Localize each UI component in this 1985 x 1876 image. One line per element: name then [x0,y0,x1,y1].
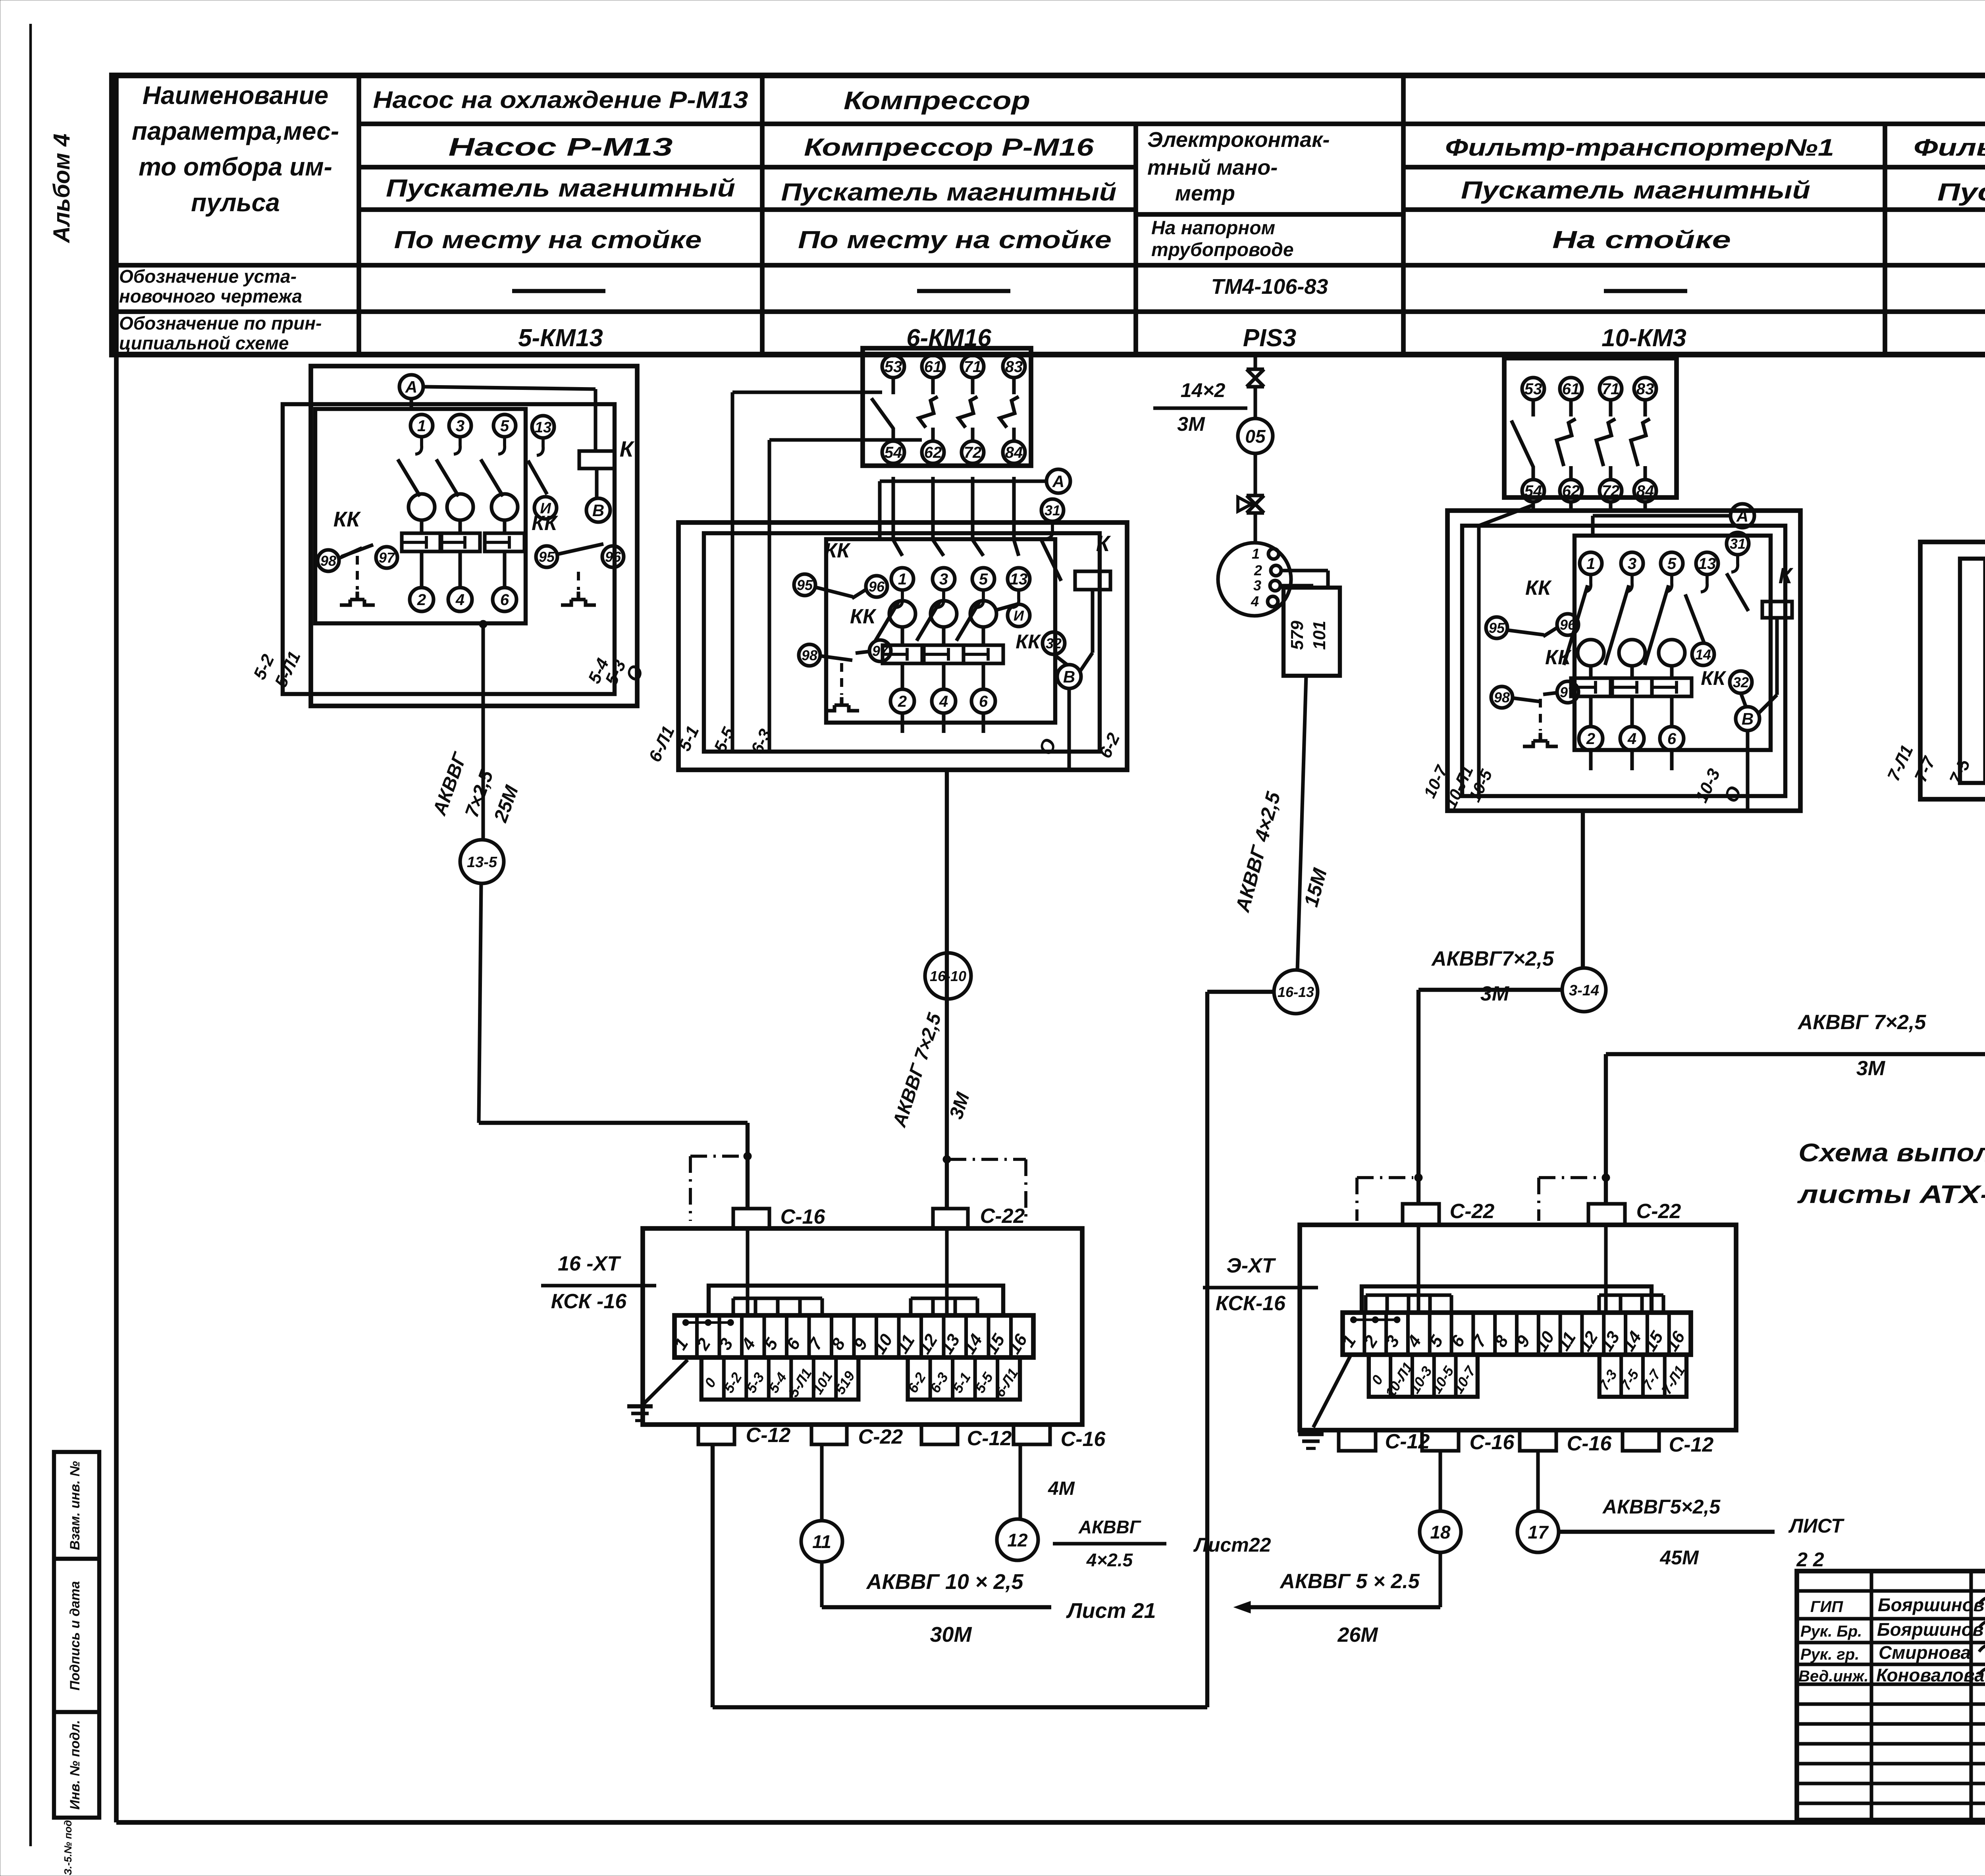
svg-text:6: 6 [500,591,509,609]
svg-text:Э-ХТ: Э-ХТ [1226,1254,1276,1277]
svg-text:3: 3 [1253,577,1261,594]
svg-text:3: 3 [939,571,948,588]
svg-text:13-5: 13-5 [467,854,497,871]
svg-text:98: 98 [802,647,817,663]
svg-text:К: К [620,436,635,461]
svg-text:5: 5 [500,417,509,435]
svg-text:32: 32 [1733,674,1749,690]
svg-text:По месту на стойке: По месту на стойке [394,226,702,254]
svg-text:95: 95 [539,549,555,565]
svg-text:10-КМ3: 10-КМ3 [1601,324,1686,352]
svg-text:62: 62 [1562,482,1580,500]
svg-text:К: К [1096,531,1111,556]
svg-text:14×2: 14×2 [1181,379,1226,401]
svg-text:пульса: пульса [191,188,280,217]
svg-text:579: 579 [1287,621,1307,650]
svg-text:ципиальной схеме: ципиальной схеме [119,333,289,353]
svg-text:Пускатель магнитный: Пускатель магнитный [386,175,735,202]
svg-text:16-13: 16-13 [1278,984,1314,1000]
svg-text:1: 1 [417,417,426,435]
svg-text:На напорном: На напорном [1151,218,1275,239]
svg-text:16 -ХТ: 16 -ХТ [558,1252,621,1275]
svg-text:Подпись и дата: Подпись и дата [67,1581,83,1691]
svg-text:В: В [1063,667,1075,686]
svg-text:72: 72 [1602,482,1620,500]
svg-text:101: 101 [1310,621,1329,650]
svg-text:тный мано-: тный мано- [1147,156,1278,179]
svg-text:трубопроводе: трубопроводе [1151,239,1294,260]
svg-text:1: 1 [1586,555,1595,573]
svg-text:С-12: С-12 [746,1424,791,1447]
svg-text:5: 5 [979,571,988,588]
svg-text:62: 62 [924,444,942,461]
svg-text:Смирнова: Смирнова [1879,1642,1971,1663]
svg-text:С-16: С-16 [1061,1428,1106,1451]
svg-text:Рук. Бр.: Рук. Бр. [1800,1623,1862,1640]
svg-text:КК: КК [1545,646,1572,669]
svg-text:КСК -16: КСК -16 [551,1290,627,1313]
svg-text:PIS3: PIS3 [1243,324,1296,352]
svg-text:АКВВГ 7×2,5: АКВВГ 7×2,5 [1797,1011,1927,1034]
svg-text:АКВВГ7×2,5: АКВВГ7×2,5 [1431,947,1554,970]
svg-text:4М: 4М [1048,1478,1075,1499]
svg-text:2: 2 [417,591,426,609]
svg-text:КК: КК [1701,667,1727,689]
svg-text:АКВВГ5×2,5: АКВВГ5×2,5 [1602,1496,1721,1518]
svg-text:С-16: С-16 [1470,1431,1515,1454]
svg-text:С-16: С-16 [781,1205,826,1228]
svg-text:листы АТХ-6,8,14.: листы АТХ-6,8,14. [1797,1180,1985,1209]
svg-text:А: А [1052,472,1064,491]
svg-text:АКВВГ: АКВВГ [1078,1517,1141,1537]
svg-text:КК: КК [532,512,558,535]
svg-text:Насос Р-М13: Насос Р-М13 [449,133,673,161]
svg-text:Бояршинов: Бояршинов [1878,1595,1985,1615]
svg-text:АКВВГ 10 × 2,5: АКВВГ 10 × 2,5 [865,1570,1023,1594]
svg-text:31: 31 [1730,536,1746,552]
svg-text:Взам. инв. №: Взам. инв. № [67,1461,83,1550]
svg-text:В: В [592,501,604,520]
svg-text:2: 2 [1254,562,1262,578]
svg-text:4: 4 [939,693,948,710]
svg-text:4: 4 [1627,730,1636,748]
svg-text:3: 3 [1628,555,1636,573]
svg-text:95: 95 [1489,620,1505,636]
svg-text:1: 1 [1252,546,1260,562]
svg-text:И: И [1014,607,1024,624]
svg-text:то отбора им-: то отбора им- [139,152,332,181]
svg-text:3: 3 [456,417,464,435]
svg-text:Пускатель магнитный: Пускатель магнитный [1461,177,1810,204]
svg-text:31: 31 [1045,502,1060,519]
svg-text:96: 96 [869,578,885,595]
svg-text:Коновалова: Коновалова [1876,1665,1985,1685]
svg-text:26М: 26М [1337,1623,1378,1647]
svg-text:96: 96 [1560,617,1576,633]
svg-text:А: А [405,378,417,396]
svg-text:Фильтр-транспортер№1: Фильтр-транспортер№1 [1445,134,1834,161]
svg-text:В: В [1742,710,1754,728]
svg-text:97: 97 [872,643,889,659]
svg-text:Инв. № подл.: Инв. № подл. [67,1720,83,1810]
svg-text:95: 95 [797,577,813,593]
svg-text:ЛИСТ: ЛИСТ [1788,1515,1845,1537]
svg-text:параметра,мес-: параметра,мес- [132,117,339,145]
svg-text:Рук. гр.: Рук. гр. [1800,1646,1859,1663]
svg-text:53: 53 [1524,380,1542,398]
svg-text:ТМ4-106-83: ТМ4-106-83 [1211,275,1328,299]
svg-text:А: А [1736,507,1748,525]
svg-text:83: 83 [1005,358,1023,376]
svg-text:4×2.5: 4×2.5 [1086,1550,1133,1570]
svg-text:30М: 30М [930,1623,972,1647]
svg-text:Электроконтак-: Электроконтак- [1147,128,1330,152]
svg-text:З.-5.№ под.: З.-5.№ под. [62,1817,74,1875]
svg-text:6: 6 [1667,730,1677,748]
svg-text:ГИП: ГИП [1810,1598,1843,1616]
svg-text:Обозначение по прин-: Обозначение по прин- [119,313,322,334]
svg-text:4: 4 [455,591,464,609]
svg-text:По месту на стойке: По месту на стойке [798,226,1112,254]
svg-text:С-22: С-22 [1636,1200,1681,1223]
svg-text:КК: КК [1525,576,1552,600]
svg-text:С-22: С-22 [1450,1200,1495,1223]
svg-text:61: 61 [1562,380,1580,398]
svg-text:4: 4 [1251,593,1259,609]
svg-text:16-10: 16-10 [930,968,966,984]
svg-text:05: 05 [1245,426,1266,447]
svg-text:С-16: С-16 [1567,1432,1612,1455]
svg-text:Компрессор Р-М16: Компрессор Р-М16 [804,134,1094,161]
svg-text:Фильтр-транспортер №2: Фильтр-транспортер №2 [1914,134,1985,161]
svg-text:3-14: 3-14 [1569,982,1599,999]
svg-text:1: 1 [898,571,907,588]
svg-text:Бояршинов: Бояршинов [1877,1619,1984,1640]
svg-text:45М: 45М [1659,1546,1699,1569]
svg-text:КК: КК [850,605,877,628]
svg-text:97: 97 [1560,684,1576,700]
svg-text:С-12: С-12 [967,1427,1012,1450]
svg-text:Обозначение уста-: Обозначение уста- [119,266,297,287]
svg-text:71: 71 [1602,380,1620,398]
svg-text:На стойке: На стойке [1552,226,1731,254]
svg-text:3М: 3М [1480,982,1510,1005]
svg-text:С-22: С-22 [858,1425,903,1448]
svg-text:11: 11 [812,1531,831,1552]
svg-text:14: 14 [1695,646,1711,663]
svg-text:98: 98 [320,553,336,569]
svg-text:61: 61 [924,358,942,376]
svg-text:72: 72 [964,444,982,461]
svg-text:Лист 21: Лист 21 [1066,1599,1156,1623]
svg-text:13: 13 [535,419,551,436]
svg-text:3М: 3М [1177,413,1205,435]
svg-text:Наименование: Наименование [143,81,328,110]
svg-text:83: 83 [1636,380,1654,398]
svg-text:3М: 3М [1856,1057,1886,1080]
svg-text:КК: КК [1016,630,1041,653]
svg-text:Альбом 4: Альбом 4 [49,133,75,243]
svg-text:КСК-16: КСК-16 [1216,1292,1286,1315]
svg-text:К: К [1779,563,1794,588]
svg-text:Компрессор: Компрессор [844,86,1030,115]
svg-text:2 2: 2 2 [1796,1548,1824,1571]
svg-text:новочного чертежа: новочного чертежа [119,286,302,307]
svg-text:С-22: С-22 [980,1205,1025,1228]
svg-text:Пускатель магнитный: Пускатель магнитный [1937,179,1985,206]
svg-text:5-КМ13: 5-КМ13 [518,324,603,352]
svg-text:54: 54 [1524,482,1542,500]
svg-text:53: 53 [885,358,902,376]
svg-text:84: 84 [1005,444,1023,461]
svg-text:метр: метр [1175,181,1235,205]
svg-text:71: 71 [964,358,982,376]
svg-text:17: 17 [1528,1522,1549,1542]
svg-text:97: 97 [379,549,395,566]
svg-text:12: 12 [1007,1530,1028,1550]
svg-text:АКВВГ 5 × 2.5: АКВВГ 5 × 2.5 [1279,1570,1420,1593]
svg-text:Пускатель магнитный: Пускатель магнитный [781,179,1117,206]
svg-text:13: 13 [1698,555,1716,573]
svg-text:2: 2 [1586,730,1595,748]
svg-text:13: 13 [1010,571,1028,588]
svg-text:Насос на охлаждение Р-М13: Насос на охлаждение Р-М13 [373,87,748,113]
svg-text:КК: КК [333,507,361,531]
svg-text:32: 32 [1046,635,1062,652]
svg-text:Вед.инж.: Вед.инж. [1798,1668,1869,1685]
svg-text:98: 98 [1494,689,1510,706]
svg-text:Лист22: Лист22 [1193,1534,1271,1556]
svg-text:2: 2 [898,693,907,710]
svg-text:С-12: С-12 [1669,1433,1714,1456]
svg-text:5: 5 [1667,555,1677,573]
svg-text:КК: КК [824,539,851,562]
svg-text:6: 6 [979,693,988,710]
svg-text:18: 18 [1430,1522,1451,1542]
svg-text:96: 96 [605,549,621,565]
svg-text:Схема выполнена на основании с: Схема выполнена на основании схем управл… [1798,1138,1985,1167]
svg-text:54: 54 [885,444,902,461]
svg-text:84: 84 [1636,482,1654,500]
